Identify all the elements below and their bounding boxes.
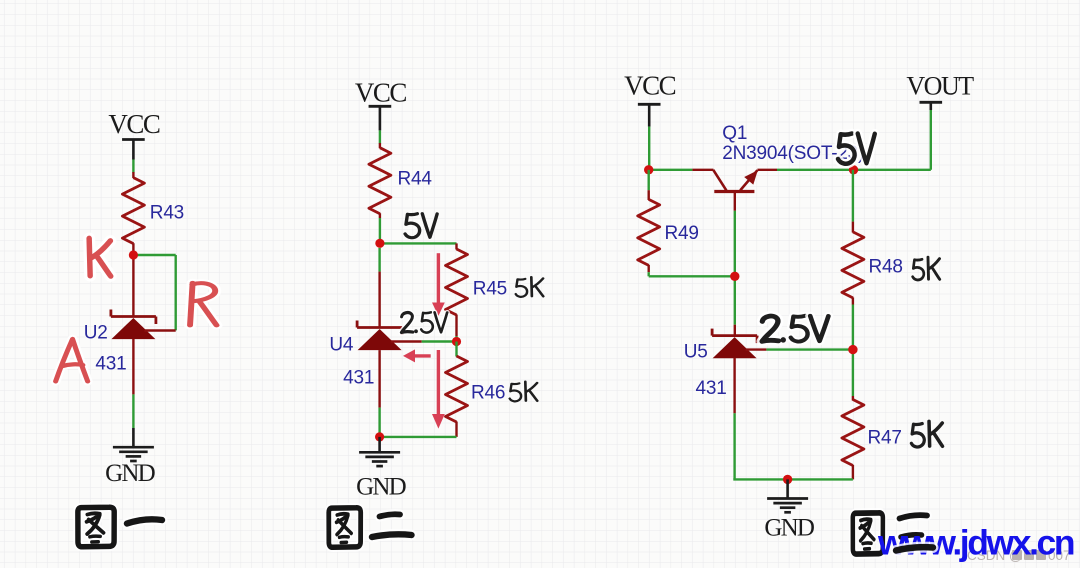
svg-text:GND: GND — [764, 515, 815, 542]
wire 5V node to R45 green — [380, 242, 457, 244]
node base junction dot (fig 3) — [730, 272, 739, 281]
wire cathode maroon to U4 — [378, 272, 380, 329]
svg-text:R43: R43 — [150, 203, 184, 224]
wire 5V node to VOUT green — [854, 169, 931, 171]
annotation 5V (fig 3) — [838, 134, 855, 164]
annotation 5V (fig 2) — [405, 214, 420, 238]
annotation K (red, cathode) — [89, 238, 111, 276]
wire bottom rail green (fig 2) — [380, 436, 457, 438]
resistor R49 pin bottom — [648, 265, 650, 272]
annotation red arrow left at U4 ref — [412, 354, 431, 357]
wire 2.5V node to R47 green — [852, 350, 854, 396]
wire anode green (fig 2) — [378, 408, 380, 437]
svg-text:VCC: VCC — [624, 71, 676, 101]
node K junction dot — [129, 250, 138, 259]
op-amp U4 TL431 shunt reference symbol — [357, 326, 402, 329]
svg-text:U4: U4 — [329, 335, 354, 356]
svg-text:Q1: Q1 — [722, 123, 747, 144]
transistor Q1 collector lead — [713, 170, 726, 191]
wire VOUT riser green — [930, 104, 932, 169]
annotation 2.5V (fig 3) — [762, 316, 779, 341]
wire R48 to 2.5V node green — [852, 305, 854, 350]
annotation 5K at R47 — [911, 424, 924, 447]
node 2.5V junction dot (fig 3) — [848, 345, 857, 354]
wire emitter to 5V node green — [777, 169, 854, 171]
svg-text:VCC: VCC — [355, 78, 407, 108]
svg-text:U5: U5 — [684, 342, 708, 363]
resistor R46 pin bottom maroon — [455, 422, 457, 437]
node 5V junction dot (fig 2) — [375, 239, 384, 248]
svg-text:R46: R46 — [471, 382, 505, 403]
node 5V junction dot (fig 3) — [849, 165, 858, 174]
wire black stub to ground (fig 3) — [786, 479, 789, 498]
ground GND symbol (fig 3) — [767, 497, 808, 500]
wire VCC stub black (fig 1) — [132, 140, 135, 160]
annotation red arrow down along R45 — [437, 253, 440, 303]
annotation red arrow down along R46 — [437, 350, 440, 415]
node 2.5V junction dot (fig 2) — [452, 337, 461, 346]
wire anode black stub to ground (fig 1) — [132, 428, 135, 447]
wire anode maroon (fig 2) — [378, 350, 380, 408]
svg-text:R44: R44 — [398, 168, 433, 189]
resistor R44 pin bottom — [379, 213, 381, 218]
svg-text:VCC: VCC — [108, 109, 160, 139]
wire anode maroon (fig 1) — [132, 339, 134, 394]
resistor R46 — [446, 356, 468, 422]
node VCC junction dot (fig 3) — [644, 165, 653, 174]
ground GND symbol (fig 2) — [359, 451, 400, 454]
wire cathode green (fig 2) — [378, 248, 380, 272]
svg-text:www.jdwx.cn: www.jdwx.cn — [877, 523, 1074, 563]
annotation R (red, reference) — [190, 283, 217, 326]
wire right loop down green (fig 1) — [174, 255, 176, 330]
wire R49 top green — [648, 170, 650, 190]
wire collector green — [649, 169, 693, 171]
wire base node to U5 green — [734, 276, 736, 324]
wire U5 ref to node green — [766, 348, 853, 350]
figure label 图一 (fig 1) — [78, 507, 114, 547]
wire black stub to ground (fig 2) — [378, 437, 381, 452]
resistor R43 pin bottom — [132, 243, 134, 255]
wire base green — [734, 211, 736, 276]
node GND junction dot (fig 2) — [375, 432, 384, 441]
svg-text:VOUT: VOUT — [906, 72, 974, 101]
resistor R47 pin top — [852, 396, 854, 401]
resistor R45 pin top — [455, 243, 457, 249]
figure label 图三 bottom stroke (over watermark) — [896, 547, 933, 550]
wire bottom rail green (fig 3) — [733, 478, 853, 480]
annotation 5K at R45 — [516, 279, 527, 297]
annotation 5K at R48 — [913, 259, 924, 280]
svg-text:431: 431 — [95, 354, 126, 375]
op-amp U5 TL431 shunt reference symbol — [712, 334, 757, 337]
resistor R47 — [842, 400, 864, 466]
transistor Q1 emitter arrow — [744, 170, 758, 184]
resistor R47 pin bottom maroon — [852, 465, 854, 479]
figure label 图二 (fig 2) — [329, 508, 361, 548]
resistor R49 — [638, 199, 660, 265]
wire cathode K to U2 maroon — [132, 255, 134, 318]
annotation 5K at R46 — [510, 383, 521, 401]
wire cathode maroon to U5 — [734, 325, 736, 337]
wire VCC green (fig 2) — [379, 130, 381, 143]
resistor R45 — [446, 249, 468, 315]
node GND junction dot (fig 3) — [783, 475, 792, 484]
svg-text:R48: R48 — [869, 256, 903, 277]
wire base maroon — [734, 192, 736, 211]
svg-text:431: 431 — [696, 378, 727, 399]
resistor R48 pin top — [852, 222, 854, 233]
svg-text:GND: GND — [356, 474, 407, 501]
svg-text:431: 431 — [343, 368, 374, 389]
wire VCC stub black (fig 3) — [648, 104, 651, 126]
wire K-node to right green (fig 1) — [132, 254, 175, 256]
wire anode green (fig 3) — [733, 413, 735, 479]
wire R45 to node green — [455, 336, 457, 342]
resistor R43 pin top — [132, 172, 134, 178]
resistor R44 pin top — [379, 143, 381, 148]
wire R49 bottom corner green — [648, 272, 650, 276]
wire R48 top green — [852, 170, 854, 222]
svg-text:GND: GND — [105, 460, 156, 487]
wire anode maroon (fig 3) — [733, 358, 735, 414]
wire U4 ref to node green — [422, 340, 457, 342]
svg-text:R49: R49 — [665, 223, 699, 244]
resistor R43 — [122, 178, 144, 244]
resistor R48 pin bottom — [852, 297, 854, 304]
wire node to R46 green — [455, 342, 457, 357]
op-amp U2 TL431 shunt reference symbol — [111, 315, 156, 318]
transistor Q1 emitter lead — [740, 170, 757, 190]
resistor R45 pin bottom maroon — [455, 315, 457, 337]
wire VCC-to-R43 green (fig 1) — [132, 160, 134, 173]
wire anode green (fig 1) — [132, 394, 134, 428]
figure label 图三 (fig 3) — [853, 513, 883, 554]
resistor R44 — [369, 148, 391, 214]
transistor Q1 base bar — [714, 190, 754, 193]
wire emitter maroon — [757, 169, 777, 171]
resistor R49 pin top — [648, 190, 650, 200]
svg-text:R47: R47 — [868, 428, 902, 449]
wire R44 to 5V node green — [379, 218, 381, 243]
wire collector maroon — [692, 169, 713, 171]
annotation A (red, anode) — [56, 339, 88, 381]
svg-text:U2: U2 — [84, 323, 108, 344]
svg-text:R45: R45 — [473, 278, 507, 299]
wire VCC stub black (fig 2) — [379, 106, 382, 130]
resistor R48 — [842, 232, 864, 298]
wire VCC green (fig 3) — [648, 127, 650, 170]
ground GND symbol (fig 1) — [113, 446, 154, 449]
annotation 2.5V (fig 2) — [401, 313, 412, 333]
